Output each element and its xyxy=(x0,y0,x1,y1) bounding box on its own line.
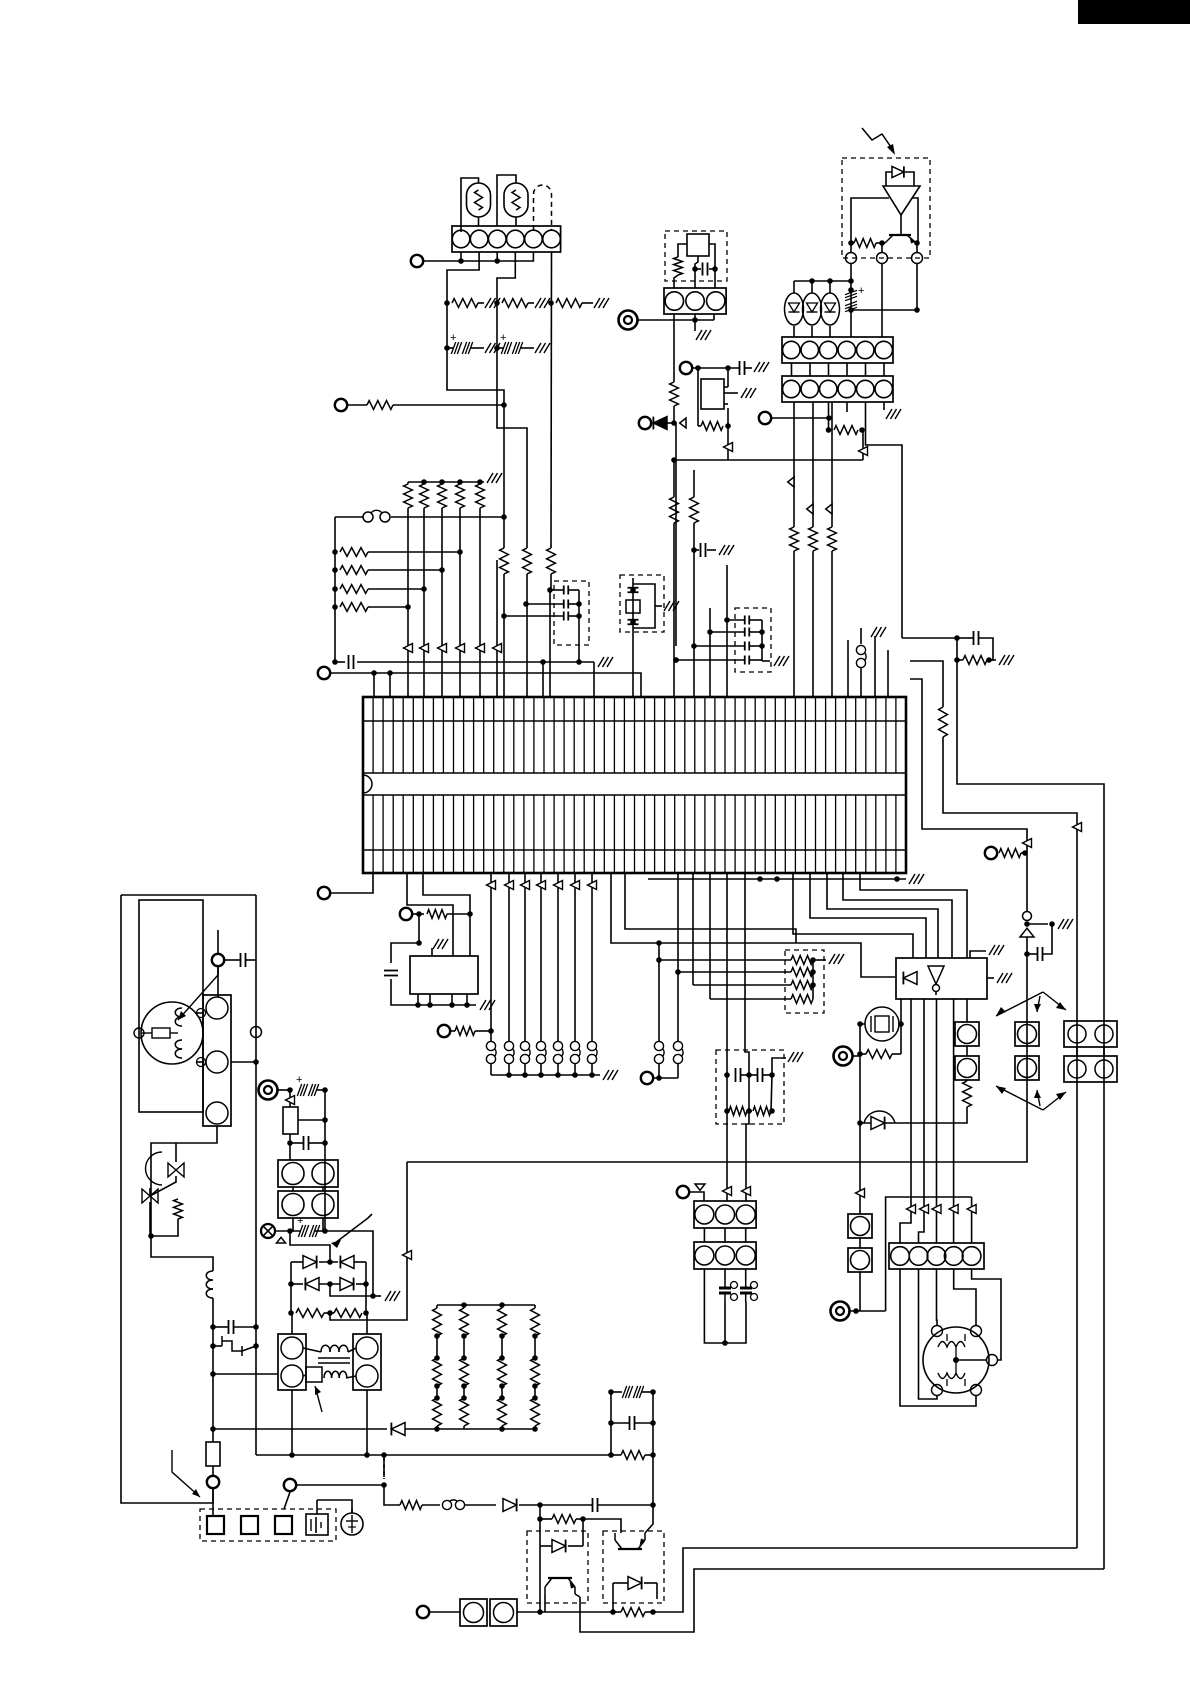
wire col745 down xyxy=(745,873,749,1075)
plug blade 1 xyxy=(241,1516,258,1534)
ground c133 xyxy=(719,545,734,555)
junction dots T1 net xyxy=(458,258,500,264)
wire c142 left xyxy=(694,645,744,647)
switch S100 contacts xyxy=(486,1041,495,1050)
junction res pair xyxy=(288,1310,369,1316)
LED D112 xyxy=(821,293,840,325)
capacitor C190 xyxy=(736,1068,741,1082)
wire led1 top xyxy=(811,281,813,293)
wire y1429 line2 xyxy=(405,1428,535,1430)
wire x967 up net xyxy=(965,1107,967,1123)
transformer T101 secondary xyxy=(324,1371,347,1378)
wire col 794 to IC xyxy=(793,551,795,697)
resistor R193 xyxy=(753,1107,771,1116)
arrow marker x860 xyxy=(856,1189,865,1198)
junction u2 cap xyxy=(416,940,422,946)
capacitor C101 electrolytic xyxy=(450,332,473,354)
wire stub 861b xyxy=(860,668,862,697)
wire arc net xyxy=(860,1122,965,1124)
junction c160 right xyxy=(914,307,920,313)
connector CN102 (osc) xyxy=(664,288,726,314)
wire fuse arrow lead xyxy=(217,930,219,975)
AC plug box (dashed) xyxy=(200,1509,336,1541)
connector CN141 (stepper) xyxy=(889,1243,984,1269)
mating arrow tm xyxy=(1037,996,1040,1012)
wire c133 left xyxy=(694,549,699,551)
ground row1 0 xyxy=(485,298,500,308)
resistor R194 xyxy=(174,1199,183,1219)
wire earth link xyxy=(317,1500,352,1513)
wire pin5 route xyxy=(866,402,903,638)
wire bridge gnd stub xyxy=(373,1295,381,1297)
wire col676 upper xyxy=(675,423,677,646)
wire xfmr wind c xyxy=(303,1375,306,1376)
wire r212 drop xyxy=(582,1519,584,1546)
wire stair c xyxy=(692,873,694,985)
junction t18 xyxy=(287,1087,328,1093)
wire lamp2 feed loop xyxy=(497,175,516,226)
IC X103 block xyxy=(701,379,724,409)
terminal T9 xyxy=(318,887,330,899)
wire cn134 down b xyxy=(323,1218,325,1231)
diode D102 in remote xyxy=(892,166,904,177)
wire xfmr p2 xyxy=(213,1373,278,1375)
wire col710 xyxy=(709,608,711,697)
wire sw col 0 b xyxy=(490,1064,492,1075)
transistor Q110 in opto1 xyxy=(545,1578,575,1594)
surge arrester E101 xyxy=(222,1341,242,1351)
wire net638 xyxy=(902,637,957,639)
junction hres 0 xyxy=(332,549,463,555)
connector CN112 a xyxy=(1015,1022,1039,1046)
power switch S120 lever xyxy=(335,1218,368,1243)
wire pin4 route xyxy=(846,402,848,412)
resistor R20502 r3 xyxy=(498,1398,507,1426)
wire pin1 down xyxy=(460,252,462,261)
IC U102 block xyxy=(896,958,987,999)
arrow marker net460 xyxy=(859,447,868,456)
remote pin 2 xyxy=(877,253,888,264)
wire u102 gnd2 xyxy=(987,977,994,979)
junction pilot res xyxy=(724,1108,775,1114)
capacitor C212 xyxy=(593,1498,598,1512)
wire bank 4 tail xyxy=(479,482,481,484)
wire rbank 437 a xyxy=(436,1305,438,1308)
junction T4 xyxy=(692,317,698,323)
connector CN121 xyxy=(694,1242,756,1269)
wire pin3 down xyxy=(496,252,498,261)
plug blade special xyxy=(306,1514,328,1535)
wire lamp1 feed loop xyxy=(461,178,479,232)
wire xfmr wind d xyxy=(346,1376,356,1378)
wire pilot cap r xyxy=(763,1074,772,1076)
wire net662 b xyxy=(357,661,594,663)
resistor R180 array xyxy=(791,956,813,965)
arrow marker u102 out 971.6 xyxy=(967,1205,976,1214)
wire q111 right xyxy=(645,1505,653,1533)
wire out2 xyxy=(580,1569,1104,1632)
junction col674 start xyxy=(671,457,677,463)
wire sw col 5 b xyxy=(574,1064,576,1075)
wire c171 a xyxy=(1027,953,1037,955)
connector CN134 xyxy=(278,1191,338,1218)
wire r142 down xyxy=(727,426,729,460)
wire c198 r xyxy=(316,1089,325,1091)
wire T7 net xyxy=(771,417,829,419)
wire earth up xyxy=(351,1509,353,1513)
wire out1 xyxy=(653,1548,1077,1612)
resistor R195 xyxy=(296,1309,324,1318)
wire st1 xyxy=(900,1269,976,1406)
resistor R192 xyxy=(729,1107,747,1116)
wire t21 net xyxy=(297,1484,384,1486)
wire r213 a xyxy=(613,1611,621,1613)
lamp PL1 element xyxy=(475,190,483,210)
wire bridge r1 a xyxy=(291,1261,303,1263)
wire bridge r1 b xyxy=(319,1261,338,1263)
wire array 2 left xyxy=(693,984,791,986)
wire c197 b xyxy=(234,1326,256,1328)
jumper J3 contact b xyxy=(455,1500,464,1509)
motor terminal xyxy=(134,1028,144,1038)
wire rpin2 down xyxy=(881,264,883,337)
ground array xyxy=(829,954,844,964)
crystal X101 xyxy=(626,600,640,613)
wire col3 to IC xyxy=(550,574,551,697)
diode D134 xyxy=(391,1423,405,1436)
option link (dashed) xyxy=(383,1455,385,1477)
junction rbank 464 xyxy=(461,1333,467,1401)
wire row2 lead 1 xyxy=(497,347,503,349)
switch S102 contacts xyxy=(520,1041,529,1050)
junction remote xyxy=(848,240,920,246)
wire osc pin1 down xyxy=(673,314,675,382)
wire rpin1 down xyxy=(850,264,852,337)
wire mid col x611 xyxy=(610,1392,612,1455)
junction rbank top xyxy=(461,1302,505,1308)
wire det out xyxy=(900,215,902,235)
arrow marker x728 xyxy=(724,443,733,452)
wire u2 gnd pin xyxy=(431,948,433,956)
resistor R20437 r2 xyxy=(433,1358,442,1386)
wire osc x to left xyxy=(678,244,687,257)
junction diode net xyxy=(671,420,677,426)
wire R104 to col1 xyxy=(393,404,504,406)
ground row1 c3 xyxy=(594,298,609,308)
wire u102 inner xyxy=(935,992,937,995)
switch S101 contacts xyxy=(504,1041,513,1050)
capacitor C211 xyxy=(630,1416,635,1430)
terminal T17 small xyxy=(251,1027,262,1038)
resistor R162 xyxy=(999,849,1021,858)
resistor R143 xyxy=(854,239,876,248)
wire remote r left xyxy=(851,242,854,244)
wire remote right xyxy=(912,198,918,243)
wire u3 in3 xyxy=(827,873,938,958)
wire u102 out1 xyxy=(900,999,911,1243)
wire r142 up xyxy=(727,408,729,426)
resistor R105 xyxy=(500,548,509,574)
wire rbank 502 a xyxy=(501,1305,503,1308)
capacitor C142 xyxy=(745,642,750,651)
wire e101 b2 xyxy=(242,1346,256,1351)
wire opto1 d b xyxy=(568,1545,583,1547)
fuse F101 xyxy=(206,1442,220,1466)
junction c199 xyxy=(287,1140,328,1146)
wire y1505 e xyxy=(540,1504,592,1506)
capacitor C152 xyxy=(740,361,745,375)
capacitor C195 (polarized) xyxy=(745,1280,747,1288)
switch S104 contacts xyxy=(553,1041,562,1050)
wire t9 net xyxy=(330,873,373,893)
wire sw col 1 xyxy=(508,873,510,1041)
wire osc pin1 up xyxy=(674,275,678,288)
junction c133 xyxy=(691,547,697,553)
terminal T16 xyxy=(212,954,224,966)
resistor R20502 r2 xyxy=(498,1358,507,1386)
switch S110 contacts xyxy=(654,1041,663,1050)
wire x105 up xyxy=(900,999,902,1024)
wire net460 h xyxy=(674,459,863,461)
wire cn130 p3 down xyxy=(151,1126,217,1236)
wire tap390 xyxy=(389,673,391,697)
wire t19 a xyxy=(275,1230,301,1232)
resistor R182 array xyxy=(791,981,813,990)
resistor R181 array xyxy=(791,968,813,977)
wire t13 net xyxy=(852,1055,860,1057)
wire rbank 437 c xyxy=(436,1386,438,1398)
lamp PL2 outline xyxy=(504,183,528,217)
ground osc xyxy=(696,330,711,340)
LED D110 xyxy=(785,293,804,325)
resistor R112 bank xyxy=(438,484,447,508)
wire stub 861a xyxy=(860,628,862,644)
ground resonator xyxy=(664,601,679,611)
wire xfmr wind b2 xyxy=(348,1348,356,1352)
wire rbank 502 b xyxy=(501,1336,503,1358)
connector CN120 xyxy=(694,1201,756,1228)
wire sw bus xyxy=(491,1074,600,1076)
arrow marker u102 out 924 xyxy=(920,1205,929,1214)
junction row1 0 xyxy=(444,300,450,306)
wire pilot right xyxy=(772,1058,786,1075)
lamp PL1 outline xyxy=(467,183,491,217)
wire array gnd stub xyxy=(813,959,826,961)
resistor R142 xyxy=(701,422,723,431)
wire s111 down xyxy=(677,1064,679,1078)
IC IC101 body band bottom xyxy=(363,794,906,796)
resistor R111 bank xyxy=(420,484,429,508)
wire bank col 1 down xyxy=(423,508,425,697)
resistor R104 xyxy=(367,401,393,410)
connector CN110 b xyxy=(848,1248,872,1272)
wire cn131 p1 up xyxy=(291,1313,293,1334)
wire cn103-104 pin5 xyxy=(883,363,885,376)
wire rbank 535 b xyxy=(534,1336,536,1358)
junction bridge r2 xyxy=(288,1281,369,1287)
wire led1 bottom xyxy=(811,326,813,337)
junction r212 xyxy=(580,1516,586,1522)
wire rbank 464 c xyxy=(463,1386,465,1398)
wire u3 in5 xyxy=(860,873,967,958)
wire y1429 line xyxy=(213,1428,387,1430)
remote pin 3 xyxy=(912,253,923,264)
wire c170 b xyxy=(979,638,993,660)
jumper J2 contact a xyxy=(856,645,865,654)
wire sw col 0 xyxy=(490,873,492,1041)
wire d101 a xyxy=(651,422,652,424)
junction jumper xyxy=(501,514,507,520)
wire e101 a xyxy=(213,1345,222,1347)
arrow marker col832 xyxy=(826,504,832,514)
wire array 0 left xyxy=(659,959,791,961)
junction resonator xyxy=(630,587,636,625)
junction t14 xyxy=(853,1308,859,1314)
ground pilot xyxy=(788,1052,803,1062)
crystal X102 xyxy=(687,234,709,256)
wire pilot out2 xyxy=(746,1111,749,1201)
wire sw col 6 b xyxy=(591,1064,593,1075)
wire u102 out3 xyxy=(936,999,938,1243)
capacitor C200 electrolytic xyxy=(297,1215,320,1237)
junction r213 xyxy=(650,1609,656,1615)
wire bank 0 tail xyxy=(407,482,409,484)
wire net662 a xyxy=(335,661,345,663)
junction pilot caps xyxy=(724,1072,775,1078)
wire cn113 l1 xyxy=(1076,1047,1078,1056)
wire c142 right xyxy=(750,645,762,647)
ground fan xyxy=(909,874,924,884)
wire bridge left xyxy=(290,1262,292,1313)
wire pin4 to bus B xyxy=(497,252,515,348)
wire lamp1 to connector xyxy=(478,217,480,226)
wire c171 b xyxy=(1043,924,1052,954)
terminal T10 xyxy=(400,908,412,920)
wire net679 xyxy=(910,679,1027,853)
plug blade 2 xyxy=(275,1516,292,1534)
IC IC101 body band top xyxy=(363,772,906,774)
arrow marker sw 6 xyxy=(588,881,597,890)
resistor R130 xyxy=(670,497,679,523)
arrow marker cn120 a xyxy=(723,1187,732,1196)
resistor R20464 r2 xyxy=(460,1358,469,1386)
diode D101 xyxy=(653,417,667,430)
wire row1 1 xyxy=(528,302,534,304)
wire u3 in4 xyxy=(843,873,952,958)
junction y1429 xyxy=(434,1426,538,1432)
wire term to blade xyxy=(212,1489,214,1516)
ground row2 0 xyxy=(485,343,500,353)
wire col659 switch xyxy=(658,943,660,1041)
wire osc pin3 down xyxy=(713,314,715,320)
arrow marker col 5 xyxy=(493,644,502,653)
wire cn104 pin0 down xyxy=(793,402,795,527)
arrow marker x1027b xyxy=(1023,839,1032,848)
junction hres 1 xyxy=(332,567,445,573)
wire rbank 464 a xyxy=(463,1305,465,1308)
wire r190 l xyxy=(860,1053,866,1055)
opto box2 (dashed) xyxy=(603,1531,664,1603)
wire filter gnd stub xyxy=(762,660,770,662)
wire net660r b xyxy=(987,659,996,661)
junction col676 net xyxy=(673,657,679,663)
wire shield right bus xyxy=(578,590,580,662)
wire t14 riser xyxy=(886,1197,972,1311)
capacitor C198 electrolytic xyxy=(296,1074,319,1096)
wire coil down xyxy=(212,1298,214,1442)
wire led0 top xyxy=(793,281,795,293)
resistor R20437 r3 xyxy=(433,1398,442,1426)
wire u3 in1 xyxy=(793,873,913,958)
junction row1 1 xyxy=(494,300,500,306)
stepper terminal a xyxy=(932,1326,943,1337)
wire sw col 2 b xyxy=(524,1064,526,1075)
resistor R161 xyxy=(963,656,987,665)
junction shield cap 1 xyxy=(523,601,529,607)
mating arrow br xyxy=(1043,1092,1066,1110)
wire t12 net xyxy=(653,1077,678,1079)
wire res pair link xyxy=(324,1312,334,1314)
spark gap arc xyxy=(864,1111,895,1123)
capacitor C171 xyxy=(1038,947,1043,961)
junction bridge r1 xyxy=(327,1259,333,1265)
delta mark xyxy=(277,1237,286,1243)
transformer T101 primary xyxy=(321,1345,348,1352)
inductor L101 xyxy=(206,1271,213,1298)
resistor R20437 r1 xyxy=(433,1308,442,1336)
wire row1 c3 xyxy=(582,302,593,304)
wire u2 pin 467 xyxy=(466,994,468,1005)
wire y1505 b xyxy=(422,1504,440,1506)
wire x290 down xyxy=(289,1090,291,1107)
capacitor C133 xyxy=(701,543,706,557)
thermal fuse arrow xyxy=(315,1386,322,1412)
wire u2 feed b xyxy=(423,873,470,956)
wire tp down xyxy=(149,1202,151,1236)
resonator box (dashed) xyxy=(620,575,664,632)
arrow marker u102 out 936.5 xyxy=(932,1205,941,1214)
wire t22 net xyxy=(429,1611,460,1613)
thermal protector arc xyxy=(146,1152,163,1185)
osc box (dashed) xyxy=(665,231,727,281)
wire cn113 l2 xyxy=(1103,1047,1105,1056)
wire bank 3 tail xyxy=(459,482,461,484)
wire c143 right xyxy=(750,659,762,661)
wire c197 a xyxy=(213,1326,228,1328)
stepper motor M102 xyxy=(923,1327,989,1393)
junction t11 xyxy=(488,1028,494,1034)
wire bridge r2 c xyxy=(356,1283,366,1285)
resistor R123 xyxy=(340,603,368,612)
capacitor C110 xyxy=(349,655,354,669)
wire osc pin3 up xyxy=(714,269,716,288)
wire opto2 loop2 xyxy=(656,1583,658,1599)
junction rbank 535 xyxy=(532,1333,538,1401)
junction x540 xyxy=(537,1516,543,1522)
wire pilot left xyxy=(726,1075,728,1111)
thermal fuse F102 xyxy=(306,1367,322,1382)
wire shield cap 1 left xyxy=(526,603,563,605)
motor fuse xyxy=(152,1028,170,1038)
arrow marker x407 xyxy=(403,1251,412,1260)
wire q110 c xyxy=(544,1594,546,1612)
wire osc mid xyxy=(695,256,698,269)
opto box1 (dashed) xyxy=(527,1531,588,1603)
wire r197 tap xyxy=(298,1119,325,1121)
terminal T7 xyxy=(759,412,771,424)
wire col674 xyxy=(673,460,675,497)
wire cn103-104 pin2 xyxy=(828,363,830,376)
